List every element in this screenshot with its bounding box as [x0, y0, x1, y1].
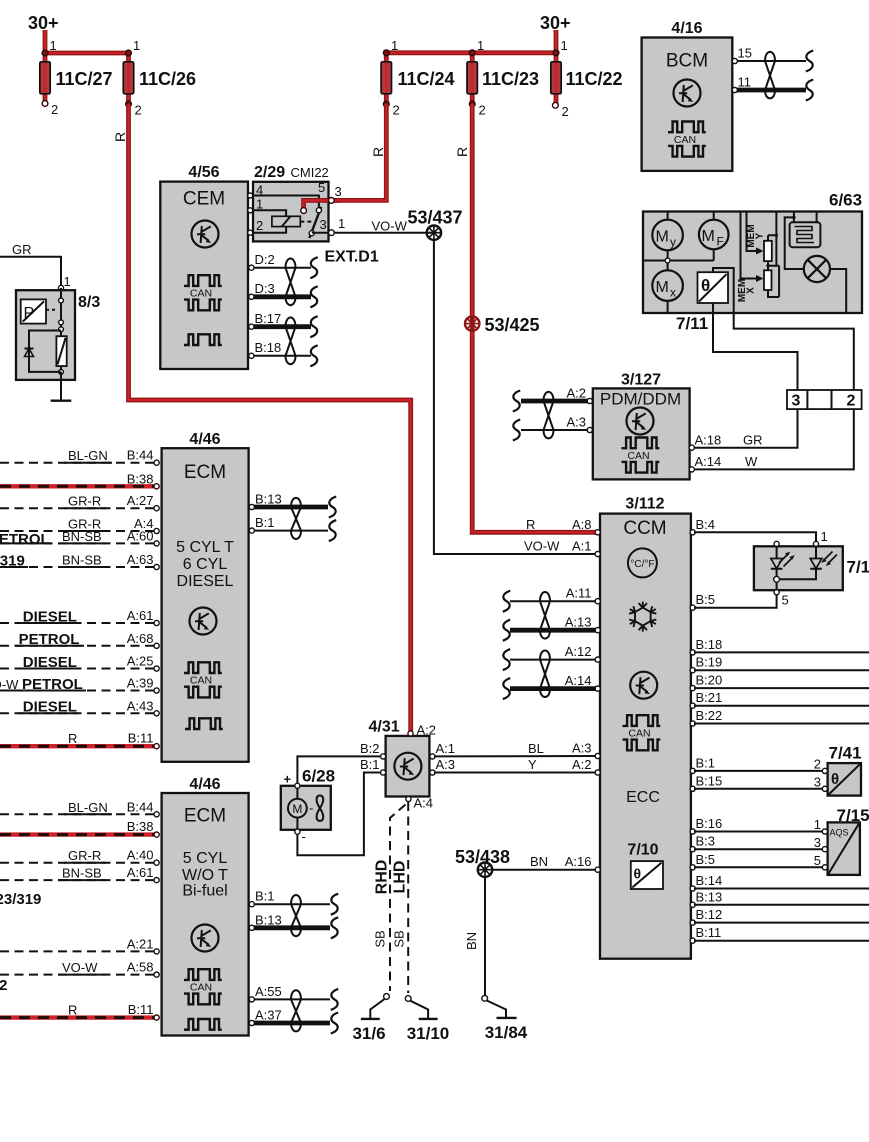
svg-text:-: - [302, 829, 306, 844]
svg-text:3/112: 3/112 [625, 496, 664, 513]
CCM pin B:5 wire to 7/15 [690, 852, 823, 870]
ECM1 pin B:1 wire (right) [249, 515, 336, 541]
CAN symbol (CCM) [623, 715, 661, 750]
svg-text:°C/°F: °C/°F [630, 559, 654, 570]
svg-text:2: 2 [847, 393, 856, 410]
ECM1 pin A:27 wire GR-R [0, 493, 159, 511]
heater element (in 6/63) [790, 212, 821, 248]
ECM2 pin B:38 red option wire [0, 819, 159, 837]
svg-text:B:3: B:3 [696, 834, 716, 849]
CCM pin B:13 wire [690, 889, 869, 907]
svg-text:B:18: B:18 [696, 637, 723, 652]
fuse 11C/26 [123, 38, 196, 118]
4/31 pin A:2 (top) [408, 731, 413, 736]
control-unit symbol K (PDM) [627, 408, 654, 435]
wire: red from 11C/24 pin 2 down to relay 2/29 pin 3 [304, 104, 387, 209]
svg-text:2/29: 2/29 [254, 164, 285, 181]
svg-text:GR: GR [743, 433, 763, 448]
svg-text:RHD: RHD [374, 860, 391, 895]
svg-text:VO-W: VO-W [524, 539, 560, 554]
CEM pin B:17 wire [249, 311, 318, 337]
ground 31/84 [482, 995, 528, 1042]
svg-text:2: 2 [562, 104, 569, 119]
svg-text:BL: BL [528, 741, 544, 756]
svg-text:F: F [717, 235, 724, 249]
svg-text:11C/26: 11C/26 [139, 69, 196, 89]
svg-text:A:60: A:60 [127, 528, 154, 543]
control module ECM 4/46 (bi-fuel) [162, 776, 249, 1036]
svg-text:BN: BN [530, 854, 548, 869]
svg-text:B:1: B:1 [255, 515, 275, 530]
ground 31/10 [405, 996, 449, 1043]
CCM pin B:1 wire to 7/41 [690, 755, 823, 773]
svg-text:GR: GR [12, 242, 32, 257]
svg-text:A:13: A:13 [565, 615, 592, 630]
fuse 11C/24 [381, 38, 454, 118]
svg-text:x: x [670, 286, 676, 300]
svg-text:B:22: B:22 [696, 708, 723, 723]
svg-text:11C/23: 11C/23 [482, 69, 539, 89]
wire: 6/28 - to 4/31 B:1 [297, 773, 381, 856]
ECM2 pin A:58 wire VO-W [0, 960, 159, 978]
svg-text:B:44: B:44 [127, 448, 154, 463]
snowflake A/C symbol (CCM) [629, 602, 656, 632]
wire: connector 3 to PDM A:18 (GR) [693, 409, 798, 448]
control module CCM 3/112 [600, 496, 691, 959]
4/31 pin A:4 (bottom) [406, 796, 411, 801]
control-unit symbol K (BCM) [674, 80, 701, 107]
CCM pin A:12 wire [503, 644, 601, 670]
svg-text:EXT.D1: EXT.D1 [325, 249, 379, 266]
svg-text:B:14: B:14 [696, 873, 723, 888]
twisted-pair symbol ECM2 A:55/A:37 [291, 990, 301, 1031]
ground 31/6 [352, 994, 389, 1043]
left LED (emitting) [776, 547, 778, 559]
svg-text:A:3: A:3 [566, 415, 586, 430]
CCM pin B:20 wire [690, 673, 869, 691]
svg-text:CCM: CCM [623, 518, 666, 539]
svg-text:BN-SB: BN-SB [62, 866, 102, 881]
svg-text:R: R [112, 132, 128, 142]
svg-text:A:4: A:4 [414, 796, 434, 811]
CCM pin B:22 wire [690, 708, 869, 726]
svg-text:GR-R: GR-R [68, 494, 101, 509]
4/31 pin B:1 [381, 770, 386, 775]
MEM X feed wire with arrow [741, 212, 760, 279]
svg-text:y: y [670, 235, 676, 249]
svg-text:PETROL: PETROL [19, 631, 80, 648]
wire BN: splice down to ground 31/84 [484, 877, 486, 995]
svg-text:1: 1 [477, 38, 484, 53]
relay connector 2/29 CMI22 [248, 164, 346, 241]
svg-text:15: 15 [738, 46, 752, 61]
ECM2 pin B:1 wire (right) [249, 889, 338, 915]
svg-text:R: R [454, 147, 470, 157]
CCM pin B:16 wire to 7/15 [690, 816, 823, 834]
wire: switch output to pin 3 [312, 232, 345, 234]
svg-text:BN: BN [464, 932, 479, 950]
svg-text:1: 1 [133, 38, 140, 53]
twisted-pair symbol B:17/B:18 [286, 318, 296, 365]
svg-text:B:19: B:19 [696, 655, 723, 670]
svg-text:7/159: 7/159 [837, 806, 869, 825]
svg-text:8/3: 8/3 [78, 294, 100, 311]
svg-text:B:13: B:13 [696, 889, 723, 904]
wire BN: splice to CCM A:16 [492, 869, 596, 871]
svg-text:A:16: A:16 [565, 854, 592, 869]
CCM pin A:8 (red feed) [595, 530, 600, 535]
BCM pin 11 wire [732, 75, 813, 101]
svg-text:5 CYL T: 5 CYL T [176, 539, 234, 556]
relay coil loop pins 1-2 [253, 210, 286, 232]
svg-text:B:13: B:13 [255, 492, 282, 507]
internal wire with junctions [60, 288, 62, 336]
svg-text:M: M [702, 228, 715, 245]
control-unit symbol K (CCM) [630, 672, 657, 699]
svg-text:B:11: B:11 [696, 925, 722, 940]
svg-text:B:18: B:18 [255, 340, 282, 355]
wire: GR feed to 8/3 [0, 257, 61, 285]
svg-text:DIESEL: DIESEL [23, 699, 77, 716]
motor My [652, 212, 683, 251]
ECM1 pin A:39 wire VO-W PETROL [0, 676, 159, 694]
fuse 11C/23 [467, 38, 539, 118]
svg-text:11C/24: 11C/24 [398, 69, 455, 89]
red wire segment into 2/29 (from 11C/24) [304, 200, 340, 208]
motor Mx [652, 270, 683, 313]
svg-text:B:2: B:2 [360, 741, 380, 756]
svg-text:2: 2 [256, 218, 263, 233]
svg-text:DIESEL: DIESEL [23, 654, 77, 671]
relay coil [272, 216, 300, 226]
svg-text:A:14: A:14 [695, 454, 722, 469]
svg-text:2: 2 [393, 103, 400, 118]
svg-text:B:11: B:11 [128, 1002, 154, 1017]
svg-text:ECM: ECM [184, 462, 226, 483]
control-unit symbol K (CEM) [192, 221, 219, 248]
wire: red from 11C/23 pin 2 down to CCM A:8 [472, 104, 598, 532]
svg-text:BN-SB: BN-SB [62, 529, 102, 544]
svg-text:BL-GN: BL-GN [68, 800, 108, 815]
svg-text:6 CYL: 6 CYL [183, 556, 228, 573]
svg-text:1: 1 [391, 38, 398, 53]
svg-text:1: 1 [561, 38, 568, 53]
svg-text:1: 1 [256, 197, 263, 212]
CAN symbol (ECM2) [184, 969, 222, 1004]
svg-text:AQS: AQS [830, 828, 849, 838]
wire: pin4 feed to switch contact [253, 196, 319, 208]
splice 53/438 [478, 863, 492, 877]
svg-text:A:61: A:61 [127, 865, 154, 880]
svg-text:4/56: 4/56 [188, 164, 219, 181]
fuse 11C/22 [551, 38, 623, 119]
svg-text:3/127: 3/127 [621, 372, 661, 389]
CAN symbol (BCM) [668, 122, 706, 157]
control-unit symbol K (ECM2) [192, 925, 219, 952]
wire: sensor top to connector-2 drop [713, 268, 854, 390]
svg-text:A:1: A:1 [436, 741, 456, 756]
svg-text:A:27: A:27 [127, 493, 154, 508]
CEM pin D:2 wire [249, 252, 318, 278]
ECM2 pin B:11 red option wire R [0, 1002, 159, 1020]
resistor element [56, 336, 66, 366]
CCM pin B:15 wire to 7/41 [690, 773, 823, 791]
4/31 pin A:1 wire BL to CCM A:3 [430, 754, 435, 759]
svg-text:LHD: LHD [392, 861, 409, 894]
ECM1 pin B:11 red option wire R [0, 731, 159, 749]
CCM pin A:14 wire [503, 673, 601, 699]
svg-text:7/11: 7/11 [676, 314, 708, 333]
control-unit symbol K (ECM1) [190, 608, 217, 635]
ground (8/3) [60, 372, 62, 400]
ECM2 pin A:55 wire (right) [249, 984, 338, 1010]
lamp symbol (in 6/63) [804, 256, 846, 313]
svg-text:B:12: B:12 [696, 907, 723, 922]
svg-text:A:68: A:68 [127, 631, 154, 646]
svg-text:R: R [526, 517, 535, 532]
control module ECM 4/46 (diesel/petrol) [162, 431, 249, 762]
svg-text:BN-SB: BN-SB [62, 553, 102, 568]
twisted-pair symbol ECM2 B:1/B:13 [291, 895, 301, 936]
svg-text:7/10: 7/10 [627, 842, 658, 859]
svg-text:A:40: A:40 [127, 848, 154, 863]
CCM pin A:11 wire [503, 586, 601, 612]
svg-text:B:5: B:5 [696, 852, 716, 867]
ECM2 pin A:21 wire [0, 936, 159, 954]
twisted-pair symbol A:11/A:13 [540, 592, 550, 639]
svg-text:5 CYL: 5 CYL [183, 850, 228, 867]
dashed wire LHD to ground 31/10 [407, 802, 409, 993]
svg-text:R: R [370, 147, 386, 157]
svg-text:D:2: D:2 [255, 252, 275, 267]
svg-text:31/6: 31/6 [352, 1024, 385, 1043]
svg-text:2: 2 [814, 757, 821, 772]
svg-text:B:38: B:38 [127, 471, 154, 486]
svg-text:B:44: B:44 [127, 799, 154, 814]
svg-text:A:14: A:14 [565, 673, 592, 688]
svg-text:1: 1 [821, 529, 828, 544]
svg-text:B:38: B:38 [127, 819, 154, 834]
svg-text:1: 1 [64, 274, 71, 289]
svg-text:A:2: A:2 [566, 386, 586, 401]
svg-text:3: 3 [320, 217, 327, 232]
dashed wire RHD to ground 31/6 [390, 805, 406, 992]
svg-text:B:15: B:15 [696, 773, 723, 788]
CCM pin B:11 wire [690, 925, 869, 943]
svg-text:-: - [309, 801, 313, 816]
svg-text:VO-W PETROL: VO-W PETROL [0, 676, 83, 693]
ECM1 pin B:13 wire (right) [249, 492, 336, 518]
svg-text:ECC: ECC [626, 789, 660, 806]
svg-text:7/19: 7/19 [847, 558, 869, 577]
svg-text:5: 5 [782, 593, 789, 608]
red wire stub contact inside 2/29 [301, 208, 307, 214]
svg-text:M: M [292, 802, 302, 816]
PDM pin A:3 wire [513, 415, 593, 441]
control-unit symbol K (4/31) [394, 753, 421, 780]
svg-text:53/438: 53/438 [455, 847, 510, 867]
svg-text:R: R [68, 731, 77, 746]
svg-text:DIESEL: DIESEL [177, 573, 234, 590]
temperature sensor box (in 6/63) [698, 272, 729, 303]
svg-text:SB: SB [373, 930, 388, 947]
svg-text:A:8: A:8 [572, 517, 592, 532]
CCM pin A:1 [595, 551, 600, 556]
CAN symbol (ECM1) [184, 662, 222, 697]
pin stubs CEM to 2/29 [248, 196, 253, 233]
ECM2 pin A:37 wire (right) [249, 1008, 338, 1034]
svg-text:θ: θ [831, 771, 839, 788]
CCM pin B:12 wire [690, 907, 869, 925]
svg-text:ECM: ECM [184, 806, 226, 827]
svg-text:B:16: B:16 [696, 816, 723, 831]
svg-text:W: W [745, 454, 758, 469]
ECM1 pin A:4 wire GR-R [0, 516, 159, 534]
internal bus wire with junction [643, 250, 714, 270]
svg-text:A:3: A:3 [436, 757, 456, 772]
svg-text:31/84: 31/84 [485, 1023, 528, 1042]
svg-text:A:1: A:1 [572, 539, 592, 554]
ECM1 pin B:38 red option wire [0, 471, 159, 489]
ECM2 pin B:13 wire (right) [249, 912, 338, 938]
svg-text:3: 3 [335, 184, 342, 199]
svg-text:B:21: B:21 [696, 690, 723, 705]
svg-text:6/28: 6/28 [302, 767, 335, 786]
temperature sensor 7/41 [814, 744, 862, 796]
ECM2 pin A:40 wire GR-R [0, 848, 159, 866]
wire: connector 2 to PDM A:14 (W) [693, 409, 854, 469]
sun sensor 7/1 (solar/LED unit) [754, 529, 869, 608]
diode branch [29, 331, 61, 372]
svg-text:23/319: 23/319 [0, 891, 41, 908]
wire: long red wire from 11C/26 pin 2 to 4/31 A:2 [129, 104, 411, 731]
wire: heater junction to lamp [785, 217, 804, 269]
svg-text:VO-W: VO-W [372, 219, 408, 234]
ECM1 pin A:43 wire DIESEL [0, 698, 159, 716]
splice 53/425 [465, 316, 479, 330]
svg-text:R: R [68, 1003, 77, 1018]
svg-text:A:61: A:61 [127, 608, 154, 623]
svg-text:Y: Y [528, 757, 537, 772]
svg-text:11C/22: 11C/22 [566, 69, 623, 89]
ECM1 pin B:44 wire BL-GN [0, 448, 159, 466]
svg-text:A:58: A:58 [127, 960, 154, 975]
motor MF [699, 212, 729, 261]
waveform symbol (CEM) [184, 334, 222, 345]
PDM pin A:18 [689, 433, 721, 451]
MEM chain wiring [768, 212, 780, 298]
ECM1 pin A:60 wire BN-SB (PETROL) [0, 528, 159, 548]
air quality sensor 7/15 [814, 806, 869, 875]
svg-text:+: + [284, 772, 292, 787]
svg-text:A:55: A:55 [255, 984, 282, 999]
svg-text:BL-GN: BL-GN [68, 448, 108, 463]
control module BCM 4/16 [642, 20, 733, 171]
svg-text:B:1: B:1 [360, 757, 380, 772]
svg-text:B:13: B:13 [255, 912, 282, 927]
svg-text:1: 1 [50, 38, 57, 53]
svg-text:1: 1 [814, 817, 821, 832]
svg-text:2: 2 [135, 103, 142, 118]
svg-text:B:5: B:5 [696, 592, 716, 607]
CCM pin B:4 wire to 7/1 pin 1 [690, 517, 816, 541]
svg-text:PDM/DDM: PDM/DDM [600, 390, 681, 409]
svg-text:Bi-fuel: Bi-fuel [182, 883, 227, 900]
svg-text:M: M [656, 229, 669, 246]
svg-text:4/31: 4/31 [369, 719, 400, 736]
svg-text:CMI22: CMI22 [291, 165, 329, 180]
svg-text:SB: SB [392, 930, 407, 947]
svg-text:B:1: B:1 [696, 755, 716, 770]
svg-text:A:63: A:63 [127, 552, 154, 567]
svg-text:2: 2 [51, 102, 58, 117]
CEM pin B:18 wire [249, 340, 318, 366]
CCM pin B:3 wire to 7/15 [690, 834, 823, 852]
wire: red feed from 30+ to fuse 11C/27 pin 1 [45, 30, 129, 53]
BCM pin 15 wire [732, 46, 813, 72]
CCM pin A:3 [595, 753, 600, 758]
waveform symbol (ECM2) [184, 1019, 222, 1030]
ECM1 pin A:63 wire BN-SB (23/319) [0, 552, 159, 570]
svg-text:BCM: BCM [666, 51, 708, 72]
CCM pin A:13 wire [503, 615, 601, 641]
P sensor symbol [21, 299, 46, 323]
wire: from splice 53/437 down to CCM A:1 [434, 240, 598, 554]
dashed actuator link [300, 221, 313, 223]
waveform symbol (ECM1) [185, 718, 223, 729]
control module PDM/DDM 3/127 [593, 372, 690, 480]
svg-text:A:43: A:43 [127, 698, 154, 713]
splice 53/437 [427, 226, 441, 240]
MEM Y feed wire with arrow [747, 212, 760, 252]
switch blade [309, 207, 321, 238]
svg-text:11: 11 [738, 75, 752, 90]
pressure sensor 8/3 [0, 242, 100, 401]
right LED (receiving) [815, 547, 817, 559]
temperature C/F symbol (CCM) [628, 548, 657, 577]
CCM pin B:21 wire [690, 690, 869, 708]
fuse 11C/27 [40, 38, 113, 117]
wire: 6/28 + to 4/31 B:2 [297, 756, 381, 783]
svg-text:23/319: 23/319 [0, 553, 25, 570]
wire: red bus to fuses 11C/24,23,22 [386, 30, 556, 53]
svg-text:DIESEL: DIESEL [23, 608, 77, 625]
CAN symbol (PDM) [622, 438, 660, 473]
svg-text:B:17: B:17 [255, 311, 282, 326]
svg-text:X: X [746, 287, 757, 294]
svg-text:4/16: 4/16 [671, 20, 702, 37]
svg-text:CEM: CEM [183, 189, 225, 210]
ECM1 pin A:61 wire DIESEL [0, 608, 159, 626]
svg-text:4/46: 4/46 [189, 776, 220, 793]
CCM pin A:2 [595, 770, 600, 775]
ECM1 pin A:25 wire DIESEL [0, 654, 159, 672]
svg-text:B:1: B:1 [255, 889, 275, 904]
ECM1 pin A:68 wire PETROL [0, 631, 159, 649]
temperature sensor symbol 7/10 (in CCM) [631, 861, 663, 889]
svg-text:1: 1 [338, 216, 345, 231]
svg-text:A:3: A:3 [572, 741, 592, 756]
CAN symbol (CEM) [184, 275, 222, 310]
pin 3 circle on red wire [329, 198, 335, 204]
wire: VO-W from 2/29 to splice 53/437 [345, 232, 434, 234]
svg-text:7/41: 7/41 [829, 744, 862, 763]
CEM pin D:3 wire (twisted pair) [249, 281, 318, 307]
svg-text:A:21: A:21 [127, 936, 154, 951]
PDM pin A:2 wire (twisted) [513, 386, 593, 412]
svg-text:2: 2 [479, 103, 486, 118]
CCM pin B:14 wire [690, 873, 869, 891]
